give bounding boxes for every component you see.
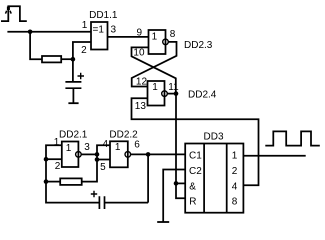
svg-text:3: 3 <box>111 25 117 36</box>
wire pin6 junction down to rail <box>147 154 149 202</box>
wire node to R2 <box>46 181 60 183</box>
wire R2 to DD2.2 input riser <box>82 145 110 181</box>
svg-text:C2: C2 <box>189 166 202 177</box>
wire DD2.1 pin3 to tie <box>81 153 97 155</box>
C2 plus sign <box>91 191 97 197</box>
gate DD2.1 box <box>62 142 79 168</box>
node DD2.1 input tie <box>44 157 49 162</box>
svg-text:C1: C1 <box>189 151 202 162</box>
svg-text:8: 8 <box>170 29 176 40</box>
wire junction down to R1 <box>30 32 42 59</box>
node R1/C1/pin2 junction <box>71 57 76 62</box>
gate DD2.4 box <box>148 81 165 106</box>
DD3 divider left <box>203 144 205 213</box>
output square wave symbol <box>265 131 320 145</box>
ground <box>68 102 78 104</box>
svg-text:1: 1 <box>152 82 158 93</box>
svg-text:10: 10 <box>133 48 145 59</box>
wire C2 to pin6 riser <box>105 202 149 204</box>
svg-text:4: 4 <box>103 139 109 150</box>
wire node down to C1 <box>72 59 74 82</box>
wire node down to DD3 R pin <box>176 183 185 198</box>
svg-text:11: 11 <box>168 82 179 93</box>
svg-text:1: 1 <box>232 151 238 162</box>
wire DD2.1 pin2 <box>46 158 62 160</box>
svg-text:DD2.1: DD2.1 <box>59 130 88 141</box>
wire tie down to bottom rail <box>46 159 99 202</box>
wire R1 to node <box>61 58 73 60</box>
pulse edge arrow <box>7 7 10 10</box>
wire DD2.4 pin11 to DD2.3 pin10 (cross) <box>132 47 176 93</box>
svg-text:1: 1 <box>115 142 121 153</box>
svg-text:13: 13 <box>135 101 147 112</box>
wire DD2.2 pin5 <box>97 159 110 161</box>
counter DD3 box <box>185 144 243 213</box>
ground under DD3 <box>157 221 169 223</box>
node input junction <box>28 30 33 35</box>
svg-text:2: 2 <box>55 161 61 172</box>
gate DD2.2 box <box>110 141 128 167</box>
wire DD3 out4 feedback to DD2.4 pin13 <box>132 98 259 185</box>
capacitor C2 <box>99 196 104 209</box>
wire DD2.1 pin1 tie <box>46 145 62 159</box>
gate DD2.3 box <box>149 30 166 54</box>
node pin3/pin4 tie <box>95 152 100 157</box>
svg-text:4: 4 <box>232 182 238 193</box>
wire DD2.2 pin6 to DD3 C1 <box>131 153 186 155</box>
node R2 tap <box>44 179 49 184</box>
bubble DD2.4 output <box>162 91 168 97</box>
wire node up to DD1.1 pin2 <box>73 42 91 59</box>
svg-text:1: 1 <box>82 20 88 31</box>
wire DD2.3 pin8 to DD2.4 pin12 (cross) <box>132 42 177 87</box>
C1 plus sign <box>78 73 85 80</box>
resistor R2 <box>60 178 81 185</box>
svg-text:6: 6 <box>134 140 140 151</box>
bubble DD2.3 output <box>163 39 169 45</box>
svg-text:1: 1 <box>54 137 60 148</box>
svg-text:9: 9 <box>137 28 143 39</box>
node DD3 & junction <box>174 181 179 186</box>
op-amp gate DD1.1 box <box>91 22 108 50</box>
svg-text:5: 5 <box>100 162 106 173</box>
svg-text:2: 2 <box>232 166 238 177</box>
svg-text:1: 1 <box>66 143 72 154</box>
svg-text:8: 8 <box>232 196 238 207</box>
node pin6 junction <box>146 152 151 157</box>
svg-text:R: R <box>189 196 196 207</box>
wire DD3 C2 to ground <box>163 170 185 222</box>
node pin11 junction <box>174 91 179 96</box>
bubble DD2.1 output <box>76 152 82 158</box>
wire input to DD1.1 pin1 <box>7 31 91 33</box>
bubble DD2.2 output <box>125 152 131 158</box>
node pin5 tie <box>95 157 100 162</box>
wire DD2.4 pin11 output <box>167 93 176 95</box>
svg-text:&: & <box>189 182 196 193</box>
DD3 divider right <box>226 144 228 213</box>
resistor R1 <box>42 56 61 62</box>
svg-text:DD2.3: DD2.3 <box>184 40 213 51</box>
svg-text:3: 3 <box>84 142 90 153</box>
capacitor C1 <box>65 82 81 88</box>
svg-text:1: 1 <box>152 31 158 42</box>
input pulse symbol <box>1 6 27 21</box>
svg-text:2: 2 <box>81 45 87 56</box>
wire C1 to ground <box>72 88 74 103</box>
svg-text:12: 12 <box>136 77 148 88</box>
svg-text:=1: =1 <box>93 25 105 36</box>
svg-text:DD2.4: DD2.4 <box>188 90 217 101</box>
wire pin11 down to DD3 <box>175 94 177 184</box>
wire DD3 out1 output <box>243 155 305 157</box>
wire DD1.1 pin3 output to DD2.3 pin9 <box>108 36 149 38</box>
wire node to DD3 & pin <box>176 182 185 184</box>
svg-text:DD3: DD3 <box>204 131 224 142</box>
svg-text:DD1.1: DD1.1 <box>89 10 118 21</box>
